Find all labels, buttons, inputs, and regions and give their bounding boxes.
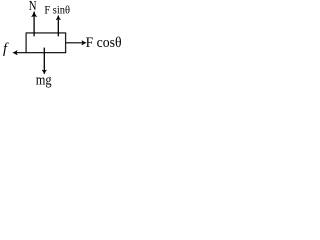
- block bottom edge merged with friction arrow line: [16, 52, 67, 54]
- weight mg arrowhead: [42, 70, 46, 74]
- F cos theta arrow tail: [66, 42, 83, 44]
- svg-text:f: f: [3, 41, 9, 57]
- friction arrowhead f: [13, 51, 17, 55]
- F sin theta arrowhead: [56, 15, 61, 20]
- F cos theta arrowhead: [82, 41, 86, 45]
- svg-text:mg: mg: [36, 73, 52, 89]
- normal force N arrow tail: [33, 16, 35, 37]
- svg-text:N: N: [29, 0, 37, 14]
- block right edge: [65, 33, 67, 53]
- svg-text:F sinθ: F sinθ: [44, 5, 70, 17]
- weight mg arrow tail: [43, 48, 45, 71]
- F sin theta arrow tail: [57, 19, 59, 36]
- block (box) top edge: [26, 32, 67, 34]
- normal force N arrowhead: [32, 11, 37, 16]
- block left edge: [25, 33, 27, 53]
- svg-text:F cosθ: F cosθ: [86, 35, 122, 51]
